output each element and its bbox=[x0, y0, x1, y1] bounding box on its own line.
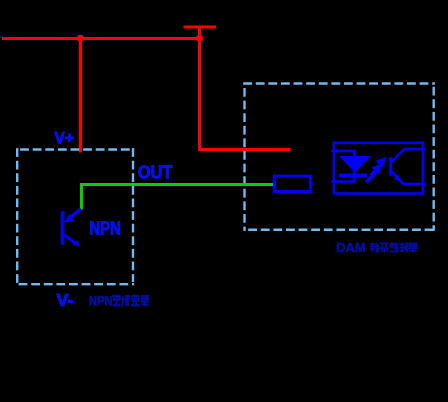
optocoupler light arrow 2 bbox=[371, 157, 387, 176]
CJK char cai (acquire) bbox=[380, 243, 389, 252]
optocoupler body outline bbox=[334, 143, 423, 194]
resistor input port rectangle bbox=[275, 176, 311, 192]
optocoupler light arrow 1 bbox=[366, 164, 382, 183]
transistor Q1 emitter wire with arrow bbox=[64, 235, 80, 247]
svg-text:OUT: OUT bbox=[138, 163, 172, 183]
svg-text:V-: V- bbox=[57, 290, 74, 310]
CJK char zhi (system) bbox=[400, 243, 408, 252]
optocoupler pin 3 emitter lead bbox=[391, 171, 426, 184]
svg-text:V+: V+ bbox=[54, 129, 74, 148]
label DAM controller caption bbox=[336, 240, 417, 255]
svg-text:NPN: NPN bbox=[89, 293, 113, 308]
CJK char qi (device) bbox=[141, 295, 149, 306]
junction dot at V+ rail right bbox=[196, 35, 203, 42]
optocoupler LED D1 triangle bbox=[339, 156, 371, 173]
transistor Q1 collector wire with arrow into base bbox=[64, 209, 81, 222]
CJK char chuan (transmit) bbox=[122, 295, 130, 306]
optocoupler U1 bbox=[332, 143, 426, 194]
dashed box DAM controller bbox=[243, 84, 435, 231]
label NPN sensor caption bbox=[89, 293, 149, 308]
optocoupler emitter arrowhead bbox=[394, 174, 401, 181]
wire from power bar down and right to DAM box bbox=[200, 26, 291, 150]
wire V+ drop into sensor box bbox=[79, 38, 82, 153]
optocoupler phototransistor base bar bbox=[389, 157, 392, 176]
CJK char shu (data) bbox=[370, 243, 379, 252]
svg-text:NPN: NPN bbox=[89, 219, 120, 239]
CJK char xing (type) bbox=[112, 295, 120, 306]
CJK char qi2 (device) bbox=[408, 243, 417, 252]
wire V+ rail top horizontal bbox=[2, 37, 200, 40]
CJK char kong (control) bbox=[390, 243, 399, 253]
optocoupler LED frame bracket bbox=[332, 151, 355, 182]
transistor Q1 base bar bbox=[61, 211, 64, 245]
resistor right pin stub bbox=[311, 183, 313, 185]
wire OUT green bbox=[82, 185, 274, 210]
optocoupler pin 4 collector lead bbox=[391, 149, 426, 162]
junction dot at V+ rail left bbox=[77, 35, 84, 42]
dashed box NPN sensor bbox=[17, 148, 134, 285]
power bar T symbol bbox=[184, 26, 217, 29]
CJK char gan (sense) bbox=[131, 295, 139, 306]
svg-text:DAM: DAM bbox=[336, 240, 366, 255]
optocoupler LED cathode bar bbox=[339, 174, 367, 178]
